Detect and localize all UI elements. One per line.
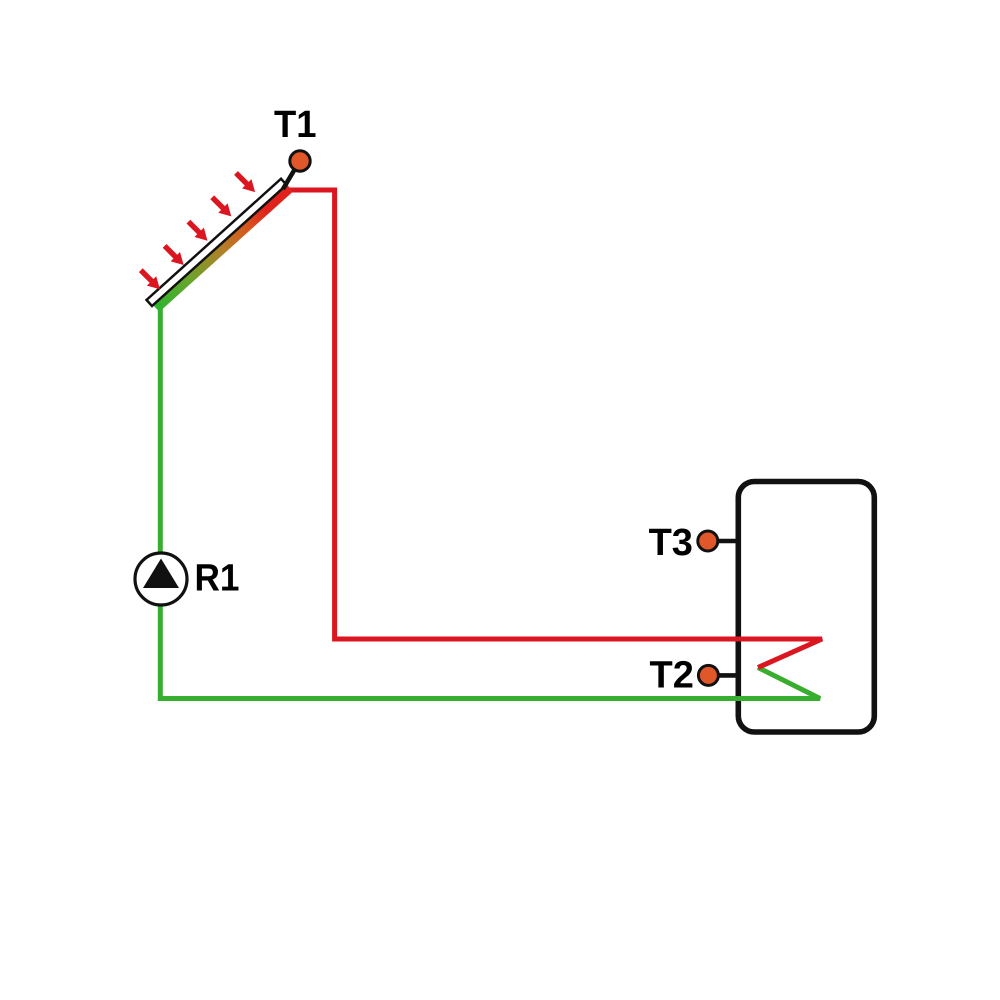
sensor T1 bbox=[290, 151, 310, 171]
svg-text:T2: T2 bbox=[650, 654, 694, 696]
sun ray arrow 1 bbox=[231, 168, 259, 196]
collector bbox=[147, 178, 294, 312]
svg-text:T3: T3 bbox=[649, 522, 693, 564]
collector glass panel bbox=[147, 179, 287, 306]
sun ray arrow 5 bbox=[136, 266, 164, 294]
sun ray arrow 4 bbox=[160, 241, 188, 269]
sensor T3 bbox=[698, 531, 718, 551]
tank bbox=[738, 482, 874, 733]
sensor T1 stub bbox=[283, 166, 297, 190]
wire red supply pipe bbox=[289, 190, 822, 668]
svg-text:R1: R1 bbox=[195, 558, 240, 600]
wire green return pipe bbox=[160, 308, 820, 699]
collector absorber gradient bar bbox=[153, 185, 293, 312]
svg-text:T1: T1 bbox=[274, 104, 317, 146]
sensor T3 stub bbox=[708, 539, 740, 544]
sun ray arrow 2 bbox=[208, 193, 236, 221]
sensor T2 bbox=[698, 665, 718, 685]
sensor T2 stub bbox=[708, 673, 740, 678]
sun ray arrow 3 bbox=[184, 217, 212, 245]
pump R1 bbox=[135, 553, 187, 605]
